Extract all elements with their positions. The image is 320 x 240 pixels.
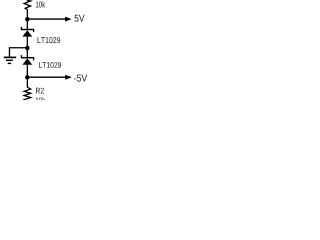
wire rail from R1 to +5V node <box>26 9 28 19</box>
arrowhead -5V output <box>65 75 72 80</box>
zener reference diode U1 LT1029 <box>21 27 33 37</box>
label U1 LT1029 <box>38 37 61 43</box>
zener reference diode U2 LT1029 <box>21 55 33 65</box>
label R2 <box>36 88 44 94</box>
wire arrow line to -5V output <box>27 76 66 78</box>
label R1 value 10k <box>36 1 45 7</box>
wire arrow line to 5V output <box>27 18 66 20</box>
label 5V output <box>74 15 84 22</box>
wire rail from D1 to ground node <box>26 36 28 48</box>
wire from ground node to ground symbol <box>9 48 27 57</box>
label R2 value 10k (cut off at bottom edge) <box>36 97 45 103</box>
label U2 LT1029 <box>39 62 61 68</box>
node ground junction dot <box>25 46 30 51</box>
resistor R1 (10k, top, cut off at top edge) <box>24 0 31 9</box>
node +5V junction dot <box>25 17 30 22</box>
ground <box>4 57 16 63</box>
wire rail from ground node to D2 <box>26 48 28 58</box>
wire rail from D2 to -5V node <box>26 65 28 78</box>
label -5V output <box>74 75 87 82</box>
node -5V junction dot <box>25 75 30 80</box>
wire rail from +5V node to D1 <box>26 19 28 29</box>
arrowhead 5V output <box>65 17 72 22</box>
wire rail from -5V node to R2 <box>26 77 28 87</box>
resistor R2 (10k, bottom, cut off at bottom edge) <box>24 87 31 100</box>
